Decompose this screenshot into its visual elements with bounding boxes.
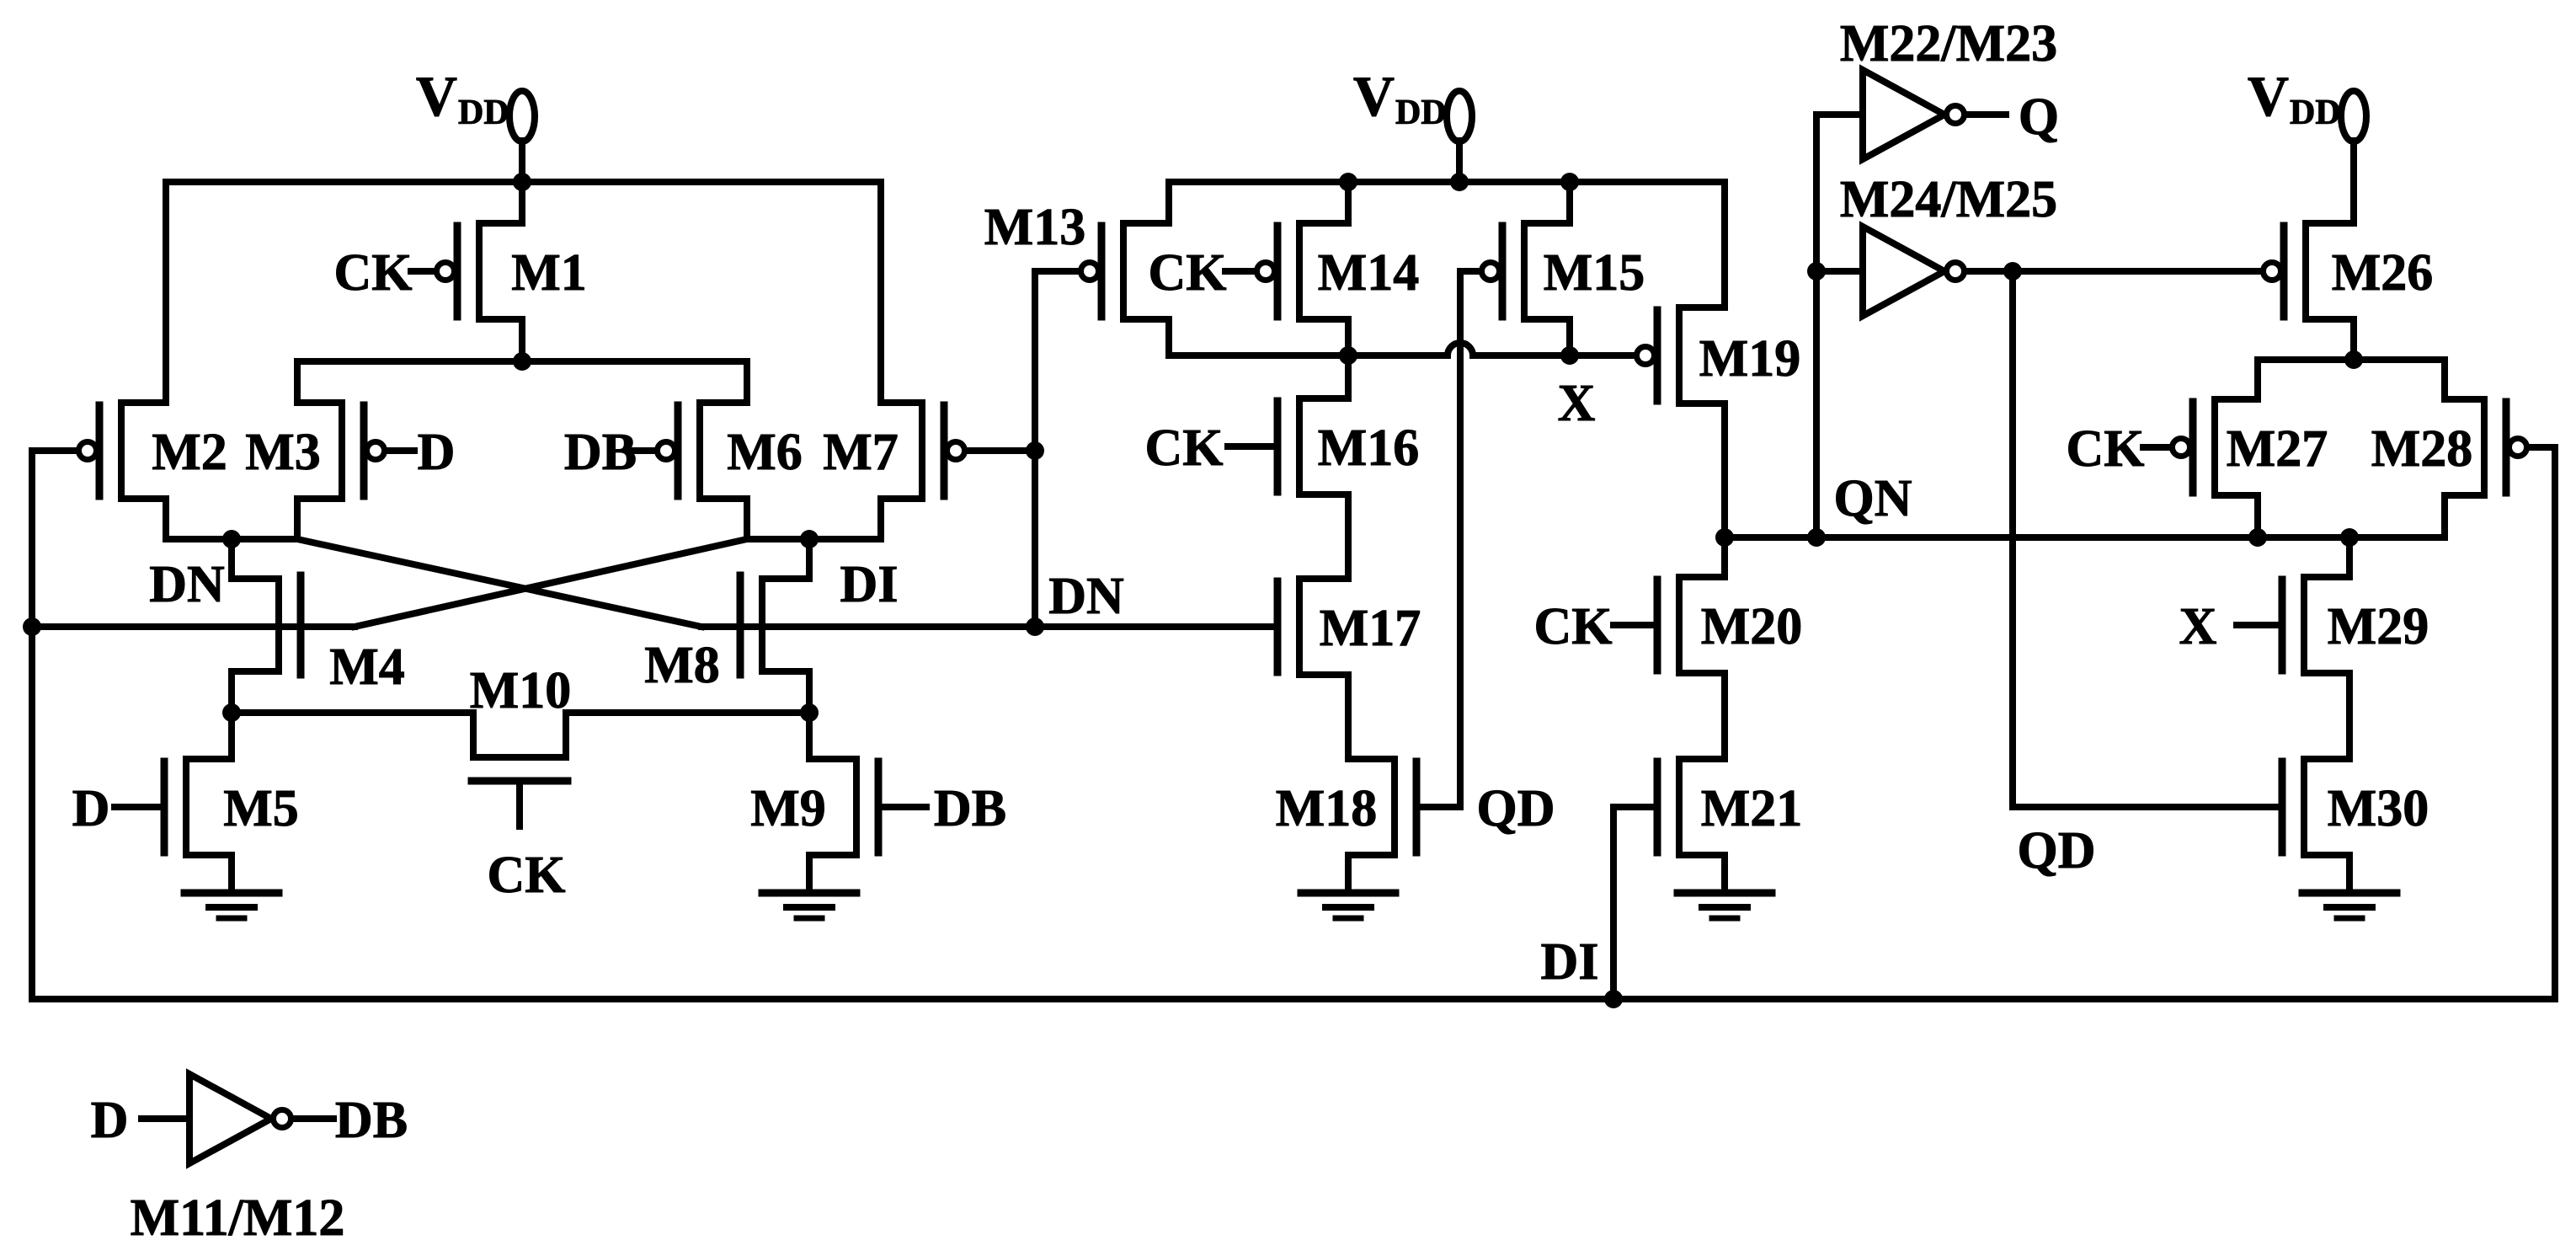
wire inverter output to DB [294, 1115, 333, 1122]
svg-text:M5: M5 [223, 780, 299, 837]
transistor M30 [2282, 759, 2349, 893]
label M9 [750, 780, 826, 837]
wire M2 gate to left DI rail [32, 447, 76, 454]
wire QN vertical to inverters [1813, 115, 1820, 537]
label DI (stage1) [840, 556, 899, 613]
label M27 [2227, 420, 2328, 478]
node M7 gate / DN vertical junction [1026, 441, 1044, 460]
node M8/M9/M10 junction [800, 703, 819, 722]
wire QD vertical (right) [2009, 271, 2016, 807]
label DB (M9 gate) [934, 780, 1006, 837]
wire QD vertical (M15/M18 gates) [1457, 271, 1464, 807]
wire DN cross diagonal [297, 539, 701, 627]
label D (M5 gate) [72, 780, 110, 837]
node M24 input junction [1807, 262, 1826, 281]
wire D to M5 gate [115, 804, 163, 810]
inverter M22/M23 [1816, 70, 1965, 159]
svg-text:CK: CK [334, 244, 413, 302]
node DI bottom wire junction [1604, 990, 1623, 1008]
svg-text:M14: M14 [1318, 244, 1420, 302]
label M2 [152, 424, 227, 481]
svg-text:X: X [1558, 375, 1596, 432]
svg-text:CK: CK [488, 847, 566, 904]
label QN [1834, 470, 1912, 527]
power VDD (stage 2) [1353, 64, 1472, 182]
wire M22 output to Q [1967, 111, 2006, 118]
svg-text:QD: QD [1477, 780, 1555, 837]
svg-text:D: D [91, 1092, 129, 1149]
transistor M28 [2445, 360, 2527, 537]
wire M18 gate to QD vertical [1420, 804, 1460, 810]
svg-text:DN: DN [149, 556, 225, 613]
label M3 [245, 424, 321, 481]
svg-text:M20: M20 [1701, 598, 1803, 655]
transistor M7 [881, 182, 965, 539]
svg-text:DD: DD [458, 94, 509, 132]
wire DI cross diagonal [355, 539, 747, 627]
svg-text:M2: M2 [152, 424, 227, 481]
ground (M30 source) [2302, 893, 2397, 918]
power VDD (stage 3) [2248, 64, 2366, 223]
label CK (M27 gate) [2067, 420, 2145, 478]
label M13 [984, 199, 1086, 256]
node QN / M19 drain junction [1715, 528, 1734, 547]
wire QN horizontal [1725, 534, 2445, 541]
label M24/M25 [1840, 171, 2057, 228]
transistor M14 [1257, 182, 1349, 355]
label M11/M12 [131, 1189, 345, 1247]
transistor M16 [1277, 355, 1348, 579]
svg-text:M10: M10 [470, 662, 572, 719]
label QD (M18 gate) [1477, 780, 1555, 837]
ground (M18 source) [1301, 893, 1395, 918]
svg-text:M18: M18 [1276, 780, 1378, 837]
svg-text:M19: M19 [1699, 330, 1801, 387]
svg-text:CK: CK [1149, 244, 1227, 302]
svg-text:V: V [416, 64, 457, 128]
wire M21 gate to DI [1613, 807, 1656, 999]
node M29 stack junction [2340, 528, 2359, 547]
svg-text:M7: M7 [823, 424, 899, 481]
transistor M18 [1348, 759, 1416, 893]
wire DI bottom rail [32, 996, 2555, 1002]
svg-text:M16: M16 [1318, 420, 1420, 477]
label M14 [1318, 244, 1420, 302]
wire X node with hop over QD [1169, 343, 1635, 355]
node DN vertical / DN horizontal junction [1026, 617, 1044, 636]
node X wire / M14 drain junction [1339, 346, 1357, 365]
label DI (stage2 input) [1541, 933, 1599, 991]
svg-text:QD: QD [2018, 822, 2096, 879]
node DN (stage1) [222, 530, 241, 548]
wire M3 gate to D [389, 447, 414, 454]
transistor M6 [658, 361, 748, 539]
svg-text:QN: QN [1834, 470, 1912, 527]
node QD takeoff junction [2003, 262, 2022, 281]
label CK (M10 gate) [488, 847, 566, 904]
node M1 drain [513, 352, 531, 371]
label M17 [1320, 600, 1421, 657]
svg-text:M15: M15 [1544, 244, 1645, 302]
wire DI node (stage1) [747, 536, 881, 542]
label CK (M1 gate) [334, 244, 413, 302]
svg-text:M21: M21 [1701, 780, 1803, 837]
svg-text:DD: DD [2290, 94, 2341, 132]
svg-text:M9: M9 [750, 780, 826, 837]
label M21 [1701, 780, 1803, 837]
svg-text:DD: DD [1395, 94, 1447, 132]
label DB (inverter output) [335, 1092, 408, 1149]
svg-text:M4: M4 [329, 639, 405, 696]
transistor M10 [472, 713, 568, 826]
transistor M2 [79, 182, 167, 539]
svg-text:M6: M6 [727, 424, 803, 481]
wire M13 gate to DN vertical [1035, 268, 1079, 275]
wire CK to M1 gate [411, 268, 435, 275]
label M26 [2332, 244, 2434, 302]
transistor M9 [809, 713, 878, 893]
label D (M3 gate) [418, 424, 456, 481]
svg-text:M28: M28 [2371, 420, 2473, 478]
svg-text:M11/M12: M11/M12 [131, 1189, 345, 1247]
svg-text:M1: M1 [511, 244, 587, 302]
label M22/M23 [1840, 15, 2057, 72]
label M4 [329, 639, 405, 696]
label M8 [644, 637, 720, 694]
node QN/vertical junction [1807, 528, 1826, 547]
svg-text:Q: Q [2019, 88, 2059, 146]
label M18 [1276, 780, 1378, 837]
wire X to M29 gate [2237, 622, 2280, 628]
label M16 [1318, 420, 1420, 477]
svg-text:CK: CK [1145, 420, 1224, 477]
transistor M26 [2264, 223, 2355, 360]
label M19 [1699, 330, 1801, 387]
label M1 [511, 244, 587, 302]
transistor M20 [1657, 537, 1725, 759]
wire QD to M30 gate [2013, 804, 2280, 810]
power VDD (stage 1) [416, 64, 535, 182]
svg-text:DI: DI [840, 556, 899, 613]
wire M9 gate to DB [880, 804, 926, 810]
svg-text:CK: CK [2067, 420, 2145, 478]
svg-text:DN: DN [1048, 568, 1124, 625]
transistor M19 [1637, 182, 1725, 537]
node DI rail / M4-gate wire junction [23, 617, 41, 636]
wire CK to M20 gate [1613, 622, 1656, 628]
wire tail node right [566, 709, 809, 716]
transistor M3 [297, 361, 385, 539]
ground (M21 source) [1677, 893, 1772, 918]
transistor M4 [232, 539, 301, 713]
label DB (M6 gate) [564, 424, 637, 481]
transistor M13 [1081, 182, 1170, 355]
svg-text:DB: DB [934, 780, 1006, 837]
svg-text:D: D [418, 424, 456, 481]
wire left DI rail (vertical) [29, 451, 35, 999]
label M15 [1544, 244, 1645, 302]
svg-text:M22/M23: M22/M23 [1840, 15, 2057, 72]
node X wire / M15 drain junction [1560, 346, 1579, 365]
svg-text:M30: M30 [2328, 780, 2429, 837]
inverter M24/M25 [1816, 227, 1965, 316]
inverter M11/M12 [189, 1074, 291, 1163]
svg-text:X: X [2179, 598, 2217, 655]
wire M28 gate to DI vertical [2530, 444, 2555, 451]
wire DB to M6 gate [629, 447, 654, 454]
label M6 [727, 424, 803, 481]
wire VDD rail stage1 [166, 179, 881, 185]
node QN / M27 junction [2248, 528, 2267, 547]
label QD (M30 gate) [2018, 822, 2096, 879]
svg-text:M13: M13 [984, 199, 1086, 256]
node M4/M5/M10 junction [222, 703, 241, 722]
node DI (stage1) [800, 530, 819, 548]
transistor M21 [1657, 759, 1725, 893]
svg-text:DB: DB [335, 1092, 408, 1149]
wire DN node (stage1) [166, 536, 297, 542]
transistor M17 [1277, 579, 1348, 759]
node rail2/VDD junction [1450, 173, 1469, 191]
transistor M29 [2282, 537, 2349, 759]
transistor M8 [740, 539, 809, 713]
transistor M15 [1482, 182, 1571, 355]
label M20 [1701, 598, 1803, 655]
svg-text:M17: M17 [1320, 600, 1421, 657]
svg-text:D: D [72, 780, 110, 837]
label M5 [223, 780, 299, 837]
transistor M27 [2173, 360, 2259, 537]
svg-text:M26: M26 [2332, 244, 2434, 302]
wire M15 gate to QD vertical [1460, 268, 1479, 275]
svg-text:V: V [2248, 64, 2289, 128]
transistor M1 [437, 182, 523, 361]
node M26 drain junction [2344, 350, 2363, 369]
wire D to inverter M11/M12 [141, 1115, 189, 1122]
label CK (M16 gate) [1145, 420, 1224, 477]
label X (stage2) [1558, 375, 1596, 432]
wire DN cross horizontal (to M8, M17 gates) [701, 623, 1277, 630]
svg-text:M24/M25: M24/M25 [1840, 171, 2057, 228]
wire M1 drain to M3/M6 sources [297, 358, 747, 365]
wire CK to M14 gate [1225, 268, 1254, 275]
svg-text:CK: CK [1534, 598, 1613, 655]
svg-text:M29: M29 [2328, 598, 2429, 655]
wire M24 output to M26 gate [1967, 268, 2260, 275]
wire VDD rail stage2 [1169, 179, 1725, 185]
label D (inverter input) [91, 1092, 129, 1149]
label M29 [2328, 598, 2429, 655]
label DN (stage2 input) [1048, 568, 1124, 625]
transistor M5 [164, 713, 232, 893]
node rail2/M14 junction [1339, 173, 1357, 191]
ground (M9 source) [762, 893, 856, 918]
wire DI cross horizontal (to M4 gate) [32, 623, 355, 630]
svg-text:M3: M3 [245, 424, 321, 481]
label DN (stage1) [149, 556, 225, 613]
wire tail node left [232, 709, 473, 716]
wire CK to M27 gate [2143, 444, 2171, 451]
label M30 [2328, 780, 2429, 837]
label CK (M20 gate) [1534, 598, 1613, 655]
label Q [2019, 88, 2059, 146]
svg-text:DB: DB [564, 424, 637, 481]
svg-text:M8: M8 [644, 637, 720, 694]
node VDD rail / M1 source junction [513, 173, 531, 191]
wire DN vertical (M13/M7/M17 gates) [1032, 271, 1038, 627]
label X (M29 gate) [2179, 598, 2217, 655]
node rail2/M15 junction [1560, 173, 1579, 191]
label CK (M14 gate) [1149, 244, 1227, 302]
svg-text:V: V [1353, 64, 1395, 128]
svg-text:M27: M27 [2227, 420, 2328, 478]
label M28 [2371, 420, 2473, 478]
wire M27/M28 top rail [2258, 356, 2445, 363]
ground (M5 source) [184, 893, 279, 918]
wire DI vertical (right) [2552, 447, 2558, 999]
label M7 [823, 424, 899, 481]
wire M7 gate to DN vertical [968, 447, 1035, 454]
svg-text:DI: DI [1541, 933, 1599, 991]
label M10 [470, 662, 572, 719]
wire CK to M16 gate [1228, 443, 1274, 450]
